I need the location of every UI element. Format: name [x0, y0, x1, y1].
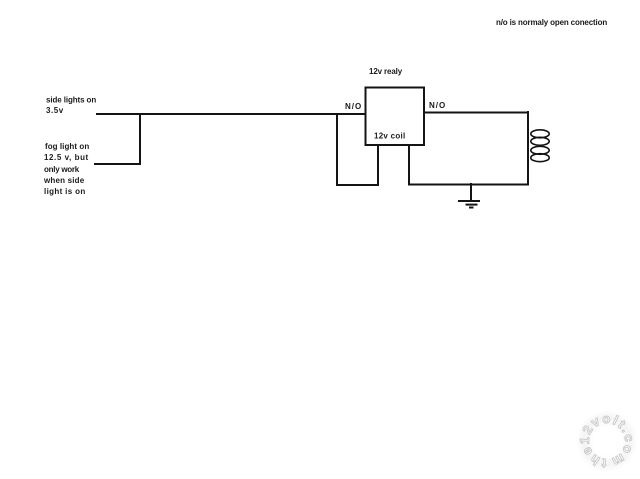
- watermark the12volt.com: [576, 410, 638, 472]
- ground: [458, 183, 480, 208]
- svg-text:light is on: light is on: [44, 187, 85, 196]
- svg-text:12.5 v, but: 12.5 v, but: [44, 153, 89, 162]
- wire: bottom right horizontal: [408, 184, 529, 186]
- wire: coil pin 1 riser: [377, 145, 379, 186]
- svg-text:12v coil: 12v coil: [374, 132, 405, 141]
- svg-text:N/O: N/O: [429, 101, 445, 110]
- svg-text:only work: only work: [44, 165, 80, 174]
- inductor L1 fog light coil: [531, 130, 549, 162]
- wire: fog light branch vertical: [139, 113, 141, 165]
- relay U1 box: [366, 88, 425, 146]
- wire: fog light stub (horizontal): [94, 163, 141, 165]
- wire: right vertical (load): [527, 111, 529, 185]
- svg-text:side lights on: side lights on: [46, 96, 96, 105]
- svg-text:when side: when side: [43, 176, 85, 185]
- wire: coil pin 2 drop: [408, 145, 410, 185]
- svg-text:fog light on: fog light on: [45, 142, 89, 151]
- svg-text:3.5v: 3.5v: [46, 106, 64, 115]
- wire: bottom left horizontal: [336, 184, 379, 186]
- label: fog light description: [43, 142, 89, 196]
- wire: relay output to load: [425, 112, 529, 114]
- svg-text:N/O: N/O: [345, 102, 361, 111]
- label: side lights on 3.5v: [46, 96, 96, 116]
- wire: branch down from feed to coil: [336, 113, 338, 186]
- wire: side lights feed (horizontal): [96, 113, 365, 115]
- svg-text:12v realy: 12v realy: [369, 67, 403, 76]
- svg-text:n/o is normaly open conection: n/o is normaly open conection: [496, 18, 607, 27]
